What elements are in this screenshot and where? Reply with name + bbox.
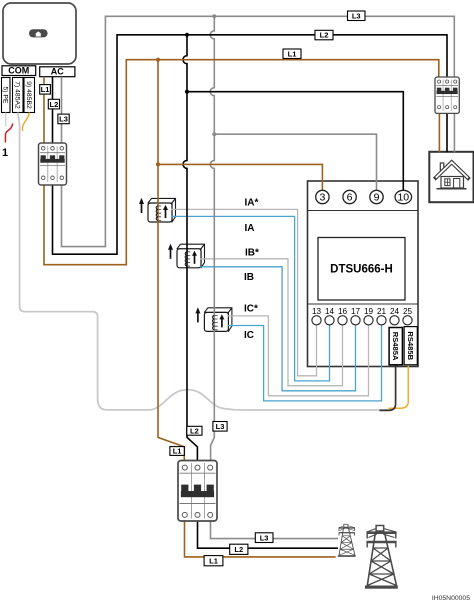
svg-text:L1: L1: [173, 447, 182, 456]
svg-text:9) 485B2: 9) 485B2: [25, 81, 32, 109]
svg-text:IA*: IA*: [245, 198, 259, 209]
svg-text:RS485A: RS485A: [391, 332, 400, 361]
svg-text:L3: L3: [260, 533, 269, 542]
svg-text:L1: L1: [288, 49, 297, 58]
svg-text:L2: L2: [50, 100, 59, 109]
svg-text:16: 16: [338, 307, 348, 316]
svg-text:10: 10: [397, 192, 409, 204]
svg-text:IC*: IC*: [244, 304, 258, 315]
svg-text:L3: L3: [59, 115, 68, 124]
svg-text:L2: L2: [320, 31, 329, 40]
svg-text:25: 25: [403, 307, 413, 316]
svg-text:1: 1: [2, 147, 8, 159]
svg-text:19: 19: [364, 307, 374, 316]
svg-text:24: 24: [390, 307, 400, 316]
svg-text:L1: L1: [209, 556, 218, 565]
svg-text:IH05N00005: IH05N00005: [432, 595, 470, 602]
svg-text:L1: L1: [41, 85, 50, 94]
svg-text:13: 13: [312, 307, 322, 316]
svg-text:L2: L2: [234, 545, 243, 554]
svg-text:3: 3: [319, 192, 325, 204]
svg-text:IB*: IB*: [245, 248, 259, 259]
svg-text:AC: AC: [51, 67, 64, 77]
svg-text:21: 21: [377, 307, 387, 316]
svg-text:L2: L2: [190, 426, 199, 435]
svg-text:9: 9: [374, 192, 380, 204]
svg-text:COM: COM: [8, 66, 29, 76]
svg-text:RS485B: RS485B: [406, 331, 415, 360]
svg-text:14: 14: [325, 307, 335, 316]
svg-text:6: 6: [347, 192, 353, 204]
svg-text:L3: L3: [352, 11, 361, 20]
svg-text:IB: IB: [244, 272, 254, 283]
svg-text:17: 17: [351, 307, 361, 316]
svg-text:5) PE: 5) PE: [2, 87, 9, 104]
svg-text:7) 485A2: 7) 485A2: [14, 81, 21, 109]
svg-text:DTSU666-H: DTSU666-H: [330, 264, 393, 276]
svg-text:IC: IC: [244, 330, 254, 341]
svg-text:L3: L3: [216, 422, 225, 431]
svg-text:IA: IA: [245, 223, 255, 234]
